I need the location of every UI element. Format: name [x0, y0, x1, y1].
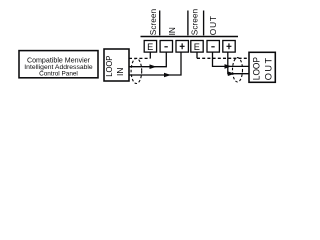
svg-text:LOOP: LOOP	[251, 57, 261, 80]
svg-text:LOOP: LOOP	[104, 55, 114, 77]
terminal block LOOP OUT	[249, 52, 275, 82]
terminal + (in)	[176, 41, 188, 53]
label underline	[141, 36, 239, 38]
terminal + (out)	[223, 41, 235, 53]
cable screen loop out (dashed ellipse)	[233, 58, 243, 82]
label divider 3	[203, 11, 205, 36]
svg-text:Screen: Screen	[148, 9, 158, 36]
control panel box	[19, 51, 98, 78]
terminal block LOOP IN	[104, 49, 129, 81]
wire loop out minus	[213, 53, 249, 69]
svg-text:E: E	[194, 42, 200, 52]
svg-text:IN: IN	[115, 68, 125, 76]
svg-text:Screen: Screen	[189, 9, 199, 36]
screen wire out (dashed)	[197, 52, 249, 58]
terminal - (in)	[160, 41, 172, 53]
label divider 1	[159, 11, 161, 36]
svg-text:E: E	[147, 42, 153, 52]
terminal E (out)	[191, 41, 203, 53]
terminal E (in)	[144, 41, 156, 53]
screen wire in (dashed)	[129, 52, 150, 58]
cable screen loop in (dashed ellipse)	[131, 59, 142, 84]
wire loop out plus	[228, 53, 249, 77]
svg-text:Control Panel: Control Panel	[39, 71, 78, 78]
label divider 2	[187, 11, 189, 36]
terminal - (out)	[207, 41, 219, 53]
svg-text:OUT: OUT	[208, 16, 218, 35]
wire loop in plus	[129, 53, 181, 78]
svg-text:IN: IN	[167, 27, 177, 35]
svg-text:OUT: OUT	[264, 58, 274, 81]
wire loop in minus	[129, 53, 166, 70]
